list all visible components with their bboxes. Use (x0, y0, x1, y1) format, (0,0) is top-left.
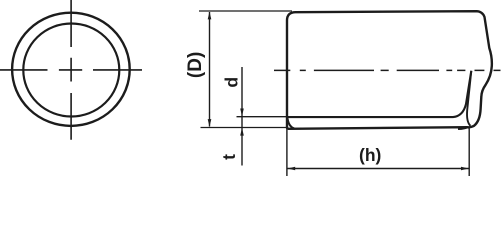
svg-text:(D): (D) (185, 52, 206, 78)
arrow D bottom (208, 119, 212, 127)
extension line h left (286, 118, 288, 176)
arrow d (down, tip at inner surface) (240, 109, 244, 117)
arrow t (up, tip at bottom surface) (240, 128, 244, 136)
left view: vertical centerline (70, 0, 72, 140)
svg-text:(h): (h) (359, 145, 381, 165)
dimension line (h) (288, 168, 469, 170)
dimension line (D) (209, 12, 211, 127)
inner corner arc bottom-left (287, 117, 294, 129)
left view: horizontal centerline (0, 69, 142, 71)
svg-text:t: t (219, 154, 239, 160)
extension line, bottom of D (201, 127, 289, 129)
lip inner silhouette (467, 71, 471, 126)
inner bottom surface line (288, 71, 471, 117)
dimension line d (241, 67, 243, 166)
outer circle (tube OD) (12, 13, 130, 126)
extension line, top of D (199, 10, 292, 12)
arrow D top (208, 12, 212, 20)
centerline of side view (dash-dot) (274, 69, 501, 71)
cap body outline (287, 11, 492, 129)
svg-text:d: d (221, 77, 241, 88)
arrow h left (287, 167, 295, 171)
extension line, inner surface (d) (237, 116, 287, 118)
bottom edge right end (merge into lip) (458, 127, 467, 129)
inner circle (tube ID) (23, 24, 119, 117)
arrow h right (461, 167, 469, 171)
extension line h right (468, 129, 470, 177)
